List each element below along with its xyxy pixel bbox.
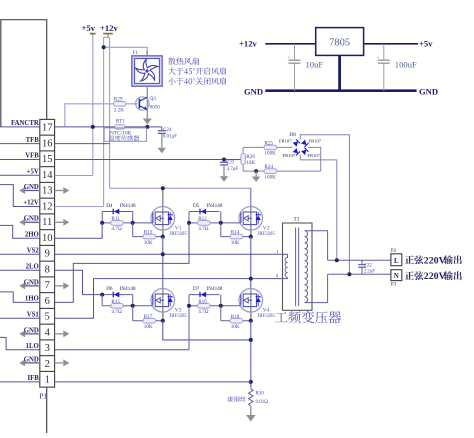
- svg-text:R14: R14: [231, 230, 240, 236]
- svg-text:12: 12: [42, 201, 53, 212]
- svg-text:100uF: 100uF: [395, 60, 417, 70]
- svg-text:VS2: VS2: [27, 247, 40, 254]
- svg-text:4.7Ω: 4.7Ω: [198, 309, 208, 315]
- svg-text:FR107: FR107: [279, 139, 292, 144]
- svg-text:3: 3: [45, 343, 50, 354]
- svg-text:RT1: RT1: [116, 119, 125, 125]
- svg-text:14: 14: [42, 170, 53, 181]
- svg-text:+: +: [287, 55, 291, 62]
- svg-text:GND: GND: [24, 356, 39, 363]
- svg-text:0.01Ω: 0.01Ω: [256, 400, 269, 405]
- svg-text:10: 10: [42, 233, 53, 244]
- svg-text:+12v: +12v: [239, 39, 257, 49]
- svg-text:R15: R15: [111, 299, 120, 305]
- svg-text:10K: 10K: [144, 324, 153, 330]
- svg-text:P3: P3: [391, 283, 397, 288]
- svg-text:8050: 8050: [150, 104, 161, 110]
- svg-text:4.7Ω: 4.7Ω: [198, 226, 208, 232]
- svg-text:220V: 220V: [424, 271, 447, 282]
- svg-text:R17: R17: [144, 314, 153, 320]
- svg-text:1: 1: [45, 375, 50, 386]
- svg-text:GND: GND: [244, 87, 263, 97]
- svg-text:V2: V2: [263, 226, 270, 232]
- svg-text:C23: C23: [226, 161, 235, 166]
- svg-text:10K: 10K: [231, 240, 240, 246]
- svg-text:13: 13: [42, 186, 53, 197]
- svg-text:C22: C22: [364, 263, 373, 268]
- svg-text:10K: 10K: [231, 324, 240, 330]
- svg-text:+5v: +5v: [419, 39, 433, 49]
- svg-text:D5: D5: [193, 203, 200, 209]
- svg-text:T1: T1: [294, 217, 300, 223]
- svg-text:P1: P1: [40, 393, 48, 401]
- svg-text:2LO: 2LO: [26, 264, 39, 271]
- svg-text:IRF3205: IRF3205: [258, 314, 276, 319]
- svg-text:R30: R30: [256, 392, 265, 397]
- svg-text:D7: D7: [193, 286, 200, 292]
- svg-text:TFB: TFB: [26, 137, 40, 144]
- svg-text:GND: GND: [24, 279, 39, 286]
- svg-text:GND: GND: [24, 216, 39, 223]
- svg-text:1HO: 1HO: [25, 296, 39, 303]
- svg-text:FR107: FR107: [309, 139, 322, 144]
- svg-text:FR107: FR107: [307, 153, 320, 158]
- svg-text:IRF3205: IRF3205: [170, 232, 188, 237]
- svg-text:GND: GND: [24, 327, 39, 334]
- svg-text:D8: D8: [290, 132, 297, 138]
- svg-text:IN4148: IN4148: [120, 286, 136, 292]
- svg-text:FR107: FR107: [283, 153, 296, 158]
- svg-text:D6: D6: [106, 286, 113, 292]
- svg-text:17: 17: [42, 123, 53, 134]
- svg-text:16: 16: [42, 138, 53, 149]
- svg-text:R29: R29: [114, 97, 123, 103]
- svg-text:2: 2: [45, 359, 50, 370]
- svg-text:F1: F1: [133, 50, 139, 56]
- svg-text:GND: GND: [24, 184, 39, 191]
- svg-text:0.01μF: 0.01μF: [163, 134, 177, 139]
- svg-text:4.7Ω: 4.7Ω: [111, 226, 121, 232]
- svg-text:V4: V4: [263, 308, 270, 314]
- svg-text:100K: 100K: [264, 151, 276, 157]
- svg-text:L: L: [394, 257, 399, 265]
- svg-text:R24: R24: [264, 164, 273, 170]
- svg-text:2.2uF: 2.2uF: [364, 269, 375, 274]
- svg-text:+5V: +5V: [27, 169, 39, 176]
- svg-text:7: 7: [45, 280, 50, 291]
- svg-text:9: 9: [45, 249, 50, 260]
- svg-text:C24: C24: [163, 128, 172, 133]
- svg-text:Q3: Q3: [150, 96, 157, 102]
- svg-text:+5v: +5v: [82, 23, 96, 33]
- svg-text:GND: GND: [419, 87, 438, 97]
- svg-text:R12: R12: [198, 216, 207, 222]
- svg-text:+: +: [376, 55, 380, 62]
- svg-text:220V: 220V: [424, 255, 447, 266]
- svg-text:100K: 100K: [264, 174, 276, 180]
- svg-text:VFB: VFB: [25, 153, 39, 160]
- svg-text:IRF3205: IRF3205: [258, 232, 276, 237]
- svg-text:VS1: VS1: [27, 311, 40, 318]
- svg-text:IN4148: IN4148: [207, 203, 223, 209]
- svg-text:5: 5: [45, 312, 50, 323]
- svg-text:7805: 7805: [329, 38, 350, 49]
- svg-text:IN4148: IN4148: [207, 286, 223, 292]
- svg-text:R13: R13: [144, 230, 153, 236]
- svg-text:6: 6: [45, 296, 50, 307]
- svg-text:4.7μF: 4.7μF: [227, 167, 239, 172]
- svg-text:R25: R25: [264, 140, 273, 146]
- svg-text:IRF3205: IRF3205: [170, 314, 188, 319]
- svg-text:2HO: 2HO: [25, 232, 39, 239]
- svg-text:15: 15: [42, 154, 53, 165]
- svg-text:FANCTR: FANCTR: [11, 120, 39, 127]
- svg-text:D4: D4: [106, 203, 113, 209]
- svg-text:11: 11: [42, 217, 52, 228]
- svg-text:N: N: [394, 272, 399, 280]
- svg-text:R11: R11: [111, 216, 120, 222]
- svg-text:P2: P2: [391, 249, 397, 254]
- svg-text:+12v: +12v: [100, 23, 118, 33]
- svg-text:10K: 10K: [246, 160, 255, 166]
- svg-text:IN4148: IN4148: [120, 203, 136, 209]
- svg-text:IFB: IFB: [27, 375, 39, 382]
- svg-text:+12V: +12V: [23, 200, 39, 207]
- svg-text:10uF: 10uF: [306, 60, 324, 70]
- svg-text:V1: V1: [175, 226, 182, 232]
- svg-text:V3: V3: [175, 308, 182, 314]
- svg-text:2.2K: 2.2K: [114, 107, 124, 113]
- svg-text:8: 8: [45, 264, 50, 275]
- svg-text:10K: 10K: [144, 240, 153, 246]
- svg-text:R16: R16: [198, 299, 207, 305]
- svg-text:4.7Ω: 4.7Ω: [111, 309, 121, 315]
- svg-text:R18: R18: [231, 314, 240, 320]
- svg-text:4: 4: [45, 327, 51, 338]
- svg-text:1LO: 1LO: [26, 343, 39, 350]
